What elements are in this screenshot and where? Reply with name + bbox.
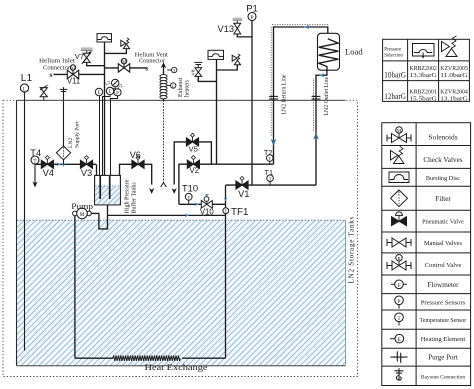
sensor T2 [267, 155, 274, 165]
wire P1 main vertical [251, 20, 253, 185]
legend icon: solenoid [387, 127, 411, 143]
sensor T4 [31, 156, 39, 164]
svg-text:s: s [145, 63, 148, 72]
bayonet connection (outlet) [312, 96, 321, 99]
pneumatic valve V2 [187, 156, 199, 169]
solenoid vent valve (helium vent) [118, 58, 129, 72]
svg-text:TF1: TF1 [231, 207, 248, 218]
manual vent valve V8 [194, 62, 202, 81]
svg-text:Pressure: Pressure [384, 48, 402, 53]
valve V13 (vent) [234, 21, 241, 34]
svg-text:P1: P1 [246, 4, 258, 15]
svg-text:T1: T1 [265, 168, 274, 177]
arrow flow subcooler line (blue right) [185, 213, 190, 217]
wire return jacket dotted vertical [270, 27, 272, 137]
legend icon: bursting disc [389, 172, 409, 183]
tank top line [17, 99, 346, 101]
svg-text:Pump: Pump [71, 201, 93, 211]
legend icon: check valve [391, 146, 405, 163]
table header icon: relief valve [442, 36, 458, 57]
wire buffer-to-subcooler line [108, 214, 226, 216]
wire V5 loop [174, 142, 211, 185]
wire P sensor drop [111, 96, 118, 175]
dip tube 2 [109, 176, 111, 199]
svg-text:10barG: 10barG [384, 70, 406, 80]
svg-text:13.3barG: 13.3barG [409, 72, 437, 79]
vent cap V13 [233, 18, 243, 21]
svg-text:KRBZ2002: KRBZ2002 [409, 65, 437, 72]
svg-text:L: L [23, 87, 26, 93]
svg-text:LN2: LN2 [68, 138, 74, 148]
wire pump suction from buffer tank [91, 205, 107, 229]
bayonet connection (return) [269, 96, 278, 99]
svg-text:Bayonet Connection: Bayonet Connection [421, 374, 465, 380]
sensor T (exhaust) [167, 67, 177, 73]
svg-text:V2: V2 [189, 166, 199, 175]
svg-text:Supply Port: Supply Port [75, 121, 81, 148]
svg-text:T4: T4 [30, 148, 41, 158]
svg-text:T: T [187, 195, 190, 200]
wire main manifold 2 vertical [216, 60, 218, 165]
svg-text:E: E [97, 91, 100, 96]
legend icon: pneumatic valve [392, 212, 407, 226]
legend icon: purge port [391, 351, 408, 363]
sensor E (exhaust heater) [167, 83, 176, 89]
svg-text:Control Valve: Control Valve [425, 262, 462, 269]
wire main manifold 1 vertical [104, 42, 106, 175]
svg-text:Connector: Connector [43, 64, 70, 71]
arrow T4 drop [32, 182, 37, 188]
svg-text:Purge Port: Purge Port [428, 354, 458, 362]
svg-text:LN2 Outlet Line: LN2 Outlet Line [324, 76, 330, 115]
gauge L2 (dial) [112, 79, 119, 86]
svg-text:M: M [80, 212, 85, 218]
svg-text:15.5barG: 15.5barG [409, 96, 437, 103]
solenoid valve V10 [201, 194, 212, 209]
wire LN2 outlet solid [316, 70, 327, 185]
legend icon: bayonet connection [395, 368, 404, 380]
filter F1 [56, 146, 70, 160]
dip tube 1 [99, 176, 101, 199]
wire LN2 return solid [274, 27, 328, 164]
heater coil [160, 75, 167, 99]
svg-text:T10: T10 [182, 184, 198, 194]
svg-text:Buffer Tanks: Buffer Tanks [131, 182, 138, 214]
purge port flange (supply) [60, 89, 68, 91]
svg-text:V6: V6 [130, 150, 141, 160]
legend icon: manual valve [387, 238, 411, 247]
svg-text:KZVR2004: KZVR2004 [440, 89, 468, 96]
solenoid valve V11 (helium inlet) [67, 65, 78, 79]
wire gauge stub [110, 87, 115, 89]
wire helium inlet line [54, 73, 105, 75]
wire check valve 2 branch [217, 65, 238, 70]
arrow flow at supply junction (blue) [62, 163, 66, 167]
svg-text:P: P [116, 92, 119, 97]
chevron exhaust bottom [161, 183, 167, 187]
svg-text:L: L [108, 90, 111, 95]
svg-text:V8: V8 [191, 69, 197, 75]
svg-text:KRBZ2001: KRBZ2001 [409, 89, 437, 96]
svg-text:Temperature Sensor: Temperature Sensor [420, 318, 467, 324]
svg-text:Check Valves: Check Valves [423, 156, 462, 164]
pneumatic valve V3 [80, 156, 92, 169]
svg-text:P: P [251, 15, 254, 21]
bursting disc D2 [208, 50, 224, 59]
svg-text:LN2 Return Line: LN2 Return Line [282, 74, 288, 114]
wire supply line [63, 87, 65, 146]
svg-text:Manual Valves: Manual Valves [424, 240, 463, 247]
wire relief branch [105, 49, 127, 54]
svg-text:heaters: heaters [185, 79, 191, 97]
svg-text:V7: V7 [75, 52, 84, 61]
legend icon: temperature sensor [395, 313, 404, 326]
wire V10 pipe [179, 203, 226, 205]
wire L sensor drop [103, 95, 111, 176]
svg-text:V5: V5 [189, 145, 198, 154]
legend icon: control valve [387, 255, 411, 270]
svg-text:V13: V13 [217, 24, 234, 34]
pump P (motor) [73, 208, 92, 219]
svg-text:L2: L2 [105, 79, 112, 86]
svg-text:Heat Exchange: Heat Exchange [145, 363, 208, 372]
vent cap above V7 [81, 47, 93, 50]
svg-text:13.1barG: 13.1barG [440, 96, 468, 103]
arrow flow TF1 (blue down) [224, 197, 228, 201]
sensor P (pressure) [114, 89, 121, 97]
wire V8 branch [198, 77, 216, 82]
high pressure buffer tank [95, 175, 121, 205]
svg-text:V3: V3 [81, 168, 92, 178]
svg-text:KZVR2005: KZVR2005 [440, 65, 468, 72]
wire T4 spray drop [34, 164, 36, 184]
svg-text:V4: V4 [43, 168, 54, 178]
wire L1 dip tube [24, 92, 26, 351]
arrow flow V6 (left) [131, 162, 136, 167]
sensor T1 [267, 175, 274, 185]
svg-text:Solenoids: Solenoids [428, 133, 457, 142]
check valve (tank vent) [40, 85, 48, 100]
svg-text:T2: T2 [264, 148, 273, 157]
svg-text:T: T [268, 156, 271, 161]
svg-text:Flowmeter: Flowmeter [427, 281, 459, 289]
svg-text:V11: V11 [67, 77, 80, 86]
wire outlet jacket dotted [313, 78, 315, 131]
wire TF1 riser (V1 corner down into liquid) [225, 185, 227, 358]
wire exhaust line solid [163, 66, 165, 101]
arrow flow V10 line (blue right) [195, 202, 199, 206]
svg-text:LN2 Storage Tanks: LN2 Storage Tanks [348, 216, 356, 284]
svg-text:High Pressure: High Pressure [125, 179, 131, 213]
svg-text:Bursting Disc: Bursting Disc [426, 175, 460, 182]
heat exchange coil [113, 356, 180, 361]
wire E sensor drop [99, 96, 101, 176]
wire V13 branch [237, 34, 252, 37]
tank left wall [16, 100, 18, 366]
svg-text:Load: Load [345, 47, 363, 57]
arrow V5 drop [172, 188, 177, 194]
svg-text:P: P [398, 299, 401, 305]
relief check valve 2 [232, 54, 240, 65]
svg-text:M: M [122, 59, 126, 64]
wire buffer tank left riser [96, 164, 98, 175]
arrow exhaust up [161, 62, 167, 68]
outer vacuum jacket dashed box [3, 100, 358, 376]
arrow return top (blue left) [304, 25, 310, 30]
sensor L1 [20, 84, 28, 93]
svg-text:Pneumatic Valve: Pneumatic Valve [422, 219, 464, 226]
legend icon: pressure sensor [395, 296, 404, 309]
table header icon: regulator [413, 44, 435, 59]
wire helium vent line [105, 67, 147, 69]
svg-text:12barG: 12barG [384, 91, 406, 101]
pneumatic valve V6 [132, 156, 144, 169]
sensor T10 [185, 193, 192, 204]
arrow return down (blue) [271, 139, 277, 146]
pneumatic valve V5 [186, 133, 198, 146]
legend icon: heating element [390, 334, 404, 343]
flowmeter TF1 [223, 208, 229, 214]
svg-text:Heating Element: Heating Element [421, 336, 466, 343]
wire return jacket dotted top [272, 24, 330, 26]
svg-text:11.0barG: 11.0barG [440, 72, 468, 79]
svg-text:Exhaust: Exhaust [178, 77, 184, 97]
svg-text:L1: L1 [21, 73, 33, 84]
wire V1 pipe [226, 184, 317, 186]
sensor E (storage tank heater) [95, 88, 102, 96]
wire V2 line [179, 164, 274, 204]
svg-text:M: M [71, 65, 75, 70]
arrow load feed (blue left) [319, 73, 324, 77]
wire V7 branch [87, 62, 105, 65]
sensor L (level) [106, 87, 113, 95]
svg-text:Connector: Connector [139, 58, 165, 65]
load heat exchanger vessel [318, 33, 340, 70]
arrow V6 drop [149, 188, 154, 194]
svg-text:F: F [398, 283, 401, 289]
wire exhaust line dashed (inside tank) [163, 100, 165, 183]
wire heat exchanger bottom run [75, 357, 113, 359]
arrow flow supply (blue right) [57, 162, 62, 166]
wire pump discharge to heat exchanger [74, 216, 76, 359]
svg-text:Pressure Sensors: Pressure Sensors [421, 300, 466, 307]
legend icon: filter [391, 190, 408, 207]
pneumatic valve V4 [41, 156, 53, 169]
pneumatic valve V1 [236, 176, 248, 189]
svg-text:T: T [225, 209, 228, 214]
wire V6 pipe [120, 164, 152, 184]
tank right wall [345, 220, 347, 366]
svg-text:M: M [397, 129, 402, 134]
svg-text:Selection: Selection [384, 54, 403, 59]
relief check valve (on manifold 1) [121, 38, 130, 49]
bursting disc D1 [97, 34, 112, 42]
svg-text:Filter: Filter [435, 195, 451, 203]
regulator V7 [82, 51, 92, 64]
svg-text:T: T [269, 176, 272, 181]
wire V3-V4 pipe [35, 163, 96, 165]
sensor P1 [248, 13, 256, 22]
legend icon: flowmeter [391, 280, 407, 289]
LN2 storage tank liquid (hatched) [17, 220, 346, 366]
svg-text:V1: V1 [238, 189, 249, 199]
arrow outlet up (blue) [313, 133, 319, 140]
